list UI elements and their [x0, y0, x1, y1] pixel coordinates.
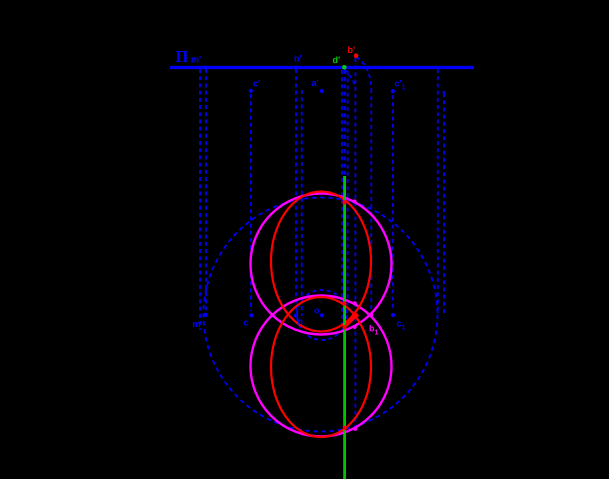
green vertical axis line	[343, 176, 346, 479]
node red axis bottom	[343, 426, 347, 430]
node a'	[320, 89, 324, 93]
svg-text:b': b'	[348, 45, 356, 55]
node magenta bottom	[353, 427, 357, 431]
node magenta mid lower	[353, 325, 357, 329]
wire: projection line at x=438	[437, 69, 439, 312]
node c'	[249, 89, 253, 93]
node m' on line	[203, 66, 207, 70]
svg-text:d': d'	[333, 55, 341, 65]
svg-text:n: n	[298, 317, 304, 327]
svg-text:c: c	[244, 318, 249, 328]
wire: projection line at x=200	[199, 69, 201, 330]
node n' on line	[294, 66, 298, 70]
svg-text:m: m	[193, 319, 201, 329]
node n	[294, 314, 298, 318]
node magenta X left	[271, 313, 275, 317]
node red on axis top circle	[342, 200, 346, 204]
svg-text:o: o	[314, 306, 320, 316]
red ellipse top	[271, 192, 371, 332]
node c	[249, 313, 253, 317]
big dashed circle (sphere outline)	[204, 198, 438, 432]
node magenta top	[353, 199, 357, 203]
svg-text:n': n'	[294, 54, 302, 64]
red thick segment (arrow)	[346, 316, 356, 326]
node d' green	[342, 65, 347, 70]
svg-text:c': c'	[253, 79, 260, 89]
node m	[204, 313, 208, 317]
small dashed circle	[297, 290, 347, 340]
wire: projection line at x=302	[301, 90, 303, 316]
wire: projection line at x=371.3	[370, 89, 372, 312]
node magenta X right	[369, 313, 373, 317]
svg-text:m': m'	[191, 55, 201, 65]
node magenta mid upper	[353, 301, 357, 305]
red ellipse bottom	[271, 297, 371, 437]
node red axis mid lower	[342, 325, 346, 329]
node c'1	[391, 89, 395, 93]
wire: projection line n at x=296	[295, 69, 297, 311]
node b' red	[354, 53, 359, 58]
node red axis mid upper	[342, 301, 346, 305]
node c1	[391, 313, 395, 317]
node red X right	[354, 313, 358, 317]
wire: projection line d at x=345	[344, 70, 346, 177]
wire: projection line c at x=251	[250, 94, 252, 311]
wire: projection line at x=444	[443, 93, 445, 315]
node at 444 top	[442, 91, 445, 94]
svg-text:Π: Π	[176, 47, 189, 66]
wire: projection line at x=342	[341, 70, 343, 329]
wire: projection line m at x=206	[205, 69, 207, 310]
wire: projection line at x=347.6	[347, 71, 349, 311]
wire: arc from d' to vertical 355	[345, 69, 355, 85]
magenta circle bottom	[251, 296, 392, 437]
svg-text:a': a'	[312, 78, 319, 88]
magenta circle top	[251, 194, 392, 335]
wire: arc from b' to vertical 371	[357, 57, 372, 89]
wire: projection line b at x=355.4	[354, 58, 356, 424]
horizontal picture-plane line PI	[170, 66, 474, 69]
node o	[320, 313, 324, 317]
wire: projection line c1 at x=393	[392, 95, 394, 311]
